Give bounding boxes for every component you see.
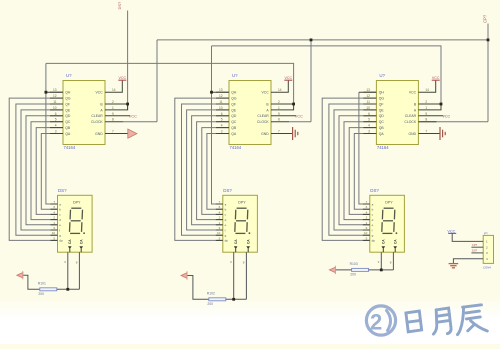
- svg-text:U?: U?: [232, 73, 238, 78]
- svg-text:QE: QE: [379, 108, 385, 112]
- svg-text:CA: CA: [234, 239, 238, 244]
- wire U3 pin14 to VCC: [418, 80, 435, 92]
- svg-text:DS?: DS?: [370, 188, 379, 193]
- svg-text:2: 2: [278, 100, 280, 104]
- wire U2 pin row 3 to DS2 display pin: [182, 104, 230, 235]
- U3 left pin numbers: [366, 88, 370, 133]
- svg-text:CA: CA: [246, 239, 250, 244]
- wire U2 CLOCK to riser: [289, 121, 311, 123]
- U1 left pin numbers: [53, 88, 57, 133]
- svg-text:10: 10: [364, 231, 368, 235]
- svg-text:200: 200: [207, 302, 213, 306]
- wire clock bus top horizontal: [157, 39, 488, 41]
- junction U1 QH / cascade vertical: [45, 91, 48, 94]
- logo character CHEN: [456, 305, 488, 335]
- ground power port arrow (section 1): [17, 271, 23, 279]
- svg-text:5: 5: [221, 118, 223, 122]
- svg-text:9: 9: [219, 226, 221, 230]
- svg-text:CLEAR: CLEAR: [405, 114, 417, 118]
- svg-text:200: 200: [350, 273, 356, 277]
- svg-text:QF: QF: [65, 102, 70, 106]
- svg-text:QD: QD: [231, 114, 237, 118]
- 7-segment display DS1: [51, 195, 93, 252]
- svg-text:8: 8: [425, 118, 427, 122]
- svg-text:200: 200: [38, 292, 44, 296]
- svg-text:13: 13: [366, 88, 370, 92]
- svg-text:CP?: CP?: [483, 14, 488, 23]
- U3 right pin numbers: [425, 88, 429, 133]
- ground power port arrow (section 3): [329, 266, 335, 274]
- svg-text:DS?: DS?: [58, 188, 67, 193]
- DS1 left pin numbers: [52, 200, 56, 240]
- svg-text:7: 7: [366, 200, 368, 204]
- svg-text:DPY: DPY: [238, 201, 246, 205]
- svg-text:8: 8: [76, 261, 78, 265]
- DS1 common pin 8: [78, 252, 80, 289]
- svg-text:P?: P?: [484, 231, 488, 235]
- svg-text:2: 2: [219, 216, 221, 220]
- wire U1 pin A tie-up: [105, 104, 128, 110]
- 7-segment display DS2: [216, 195, 258, 252]
- svg-text:GND: GND: [95, 132, 103, 136]
- wire P1 pin2 stub: [471, 246, 483, 248]
- U2 right pin numbers: [278, 88, 282, 133]
- U3 right pin labels: [404, 91, 416, 136]
- svg-text:QB: QB: [231, 126, 237, 130]
- wire U1 pin row 3 to DS1 display pin: [16, 104, 63, 235]
- svg-text:6: 6: [55, 112, 57, 116]
- svg-text:3: 3: [221, 130, 223, 134]
- DS1 common pin 3: [67, 252, 69, 289]
- wire U3 pin A tie-up: [418, 104, 441, 110]
- svg-text:5: 5: [366, 236, 368, 240]
- svg-text:QD: QD: [65, 114, 71, 118]
- wire R101 to DS1 commons: [57, 288, 80, 290]
- wire U2 pin row 7 to DS2 display pin: [202, 128, 229, 215]
- svg-text:9: 9: [425, 112, 427, 116]
- svg-text:4: 4: [53, 210, 55, 214]
- wire U1 pin row 2 to DS1 display pin: [9, 98, 63, 240]
- DS2 left pin numbers: [217, 200, 221, 240]
- svg-text:QF: QF: [379, 102, 384, 106]
- svg-text:QH: QH: [65, 91, 71, 95]
- svg-text:QC: QC: [65, 120, 71, 124]
- shift register U3 74164: [363, 81, 418, 145]
- svg-text:6: 6: [221, 112, 223, 116]
- DS3 segment input labels: [372, 202, 376, 242]
- junction DS1 pin3 / common wire: [66, 288, 69, 291]
- svg-text:4: 4: [368, 124, 370, 128]
- wire U1 pin row 7 to DS1 display pin: [36, 128, 63, 215]
- DS1 seven segment digit: [70, 208, 86, 234]
- svg-text:9: 9: [53, 226, 55, 230]
- wire VCC to P1 pin1: [452, 233, 483, 241]
- wire U2 pin row 8 to DS2 display pin: [207, 134, 229, 210]
- wire U1 pin row 8 to DS1 display pin: [41, 134, 63, 210]
- wire U3 QH stub: [359, 91, 377, 93]
- DS3 common anode marks: [382, 239, 398, 253]
- svg-text:QE: QE: [231, 108, 237, 112]
- svg-text:DPY: DPY: [73, 201, 81, 205]
- svg-text:VCC: VCC: [119, 76, 127, 80]
- svg-text:VCC: VCC: [442, 114, 450, 118]
- DS1 segment input labels: [59, 202, 63, 242]
- svg-text:5: 5: [368, 118, 370, 122]
- ground power port arrow (section 2): [181, 271, 187, 279]
- wire U3 pin B: [418, 103, 441, 105]
- svg-text:f: f: [59, 228, 60, 232]
- DS2 common anode marks: [234, 239, 251, 253]
- svg-text:R101: R101: [38, 281, 46, 285]
- svg-text:CLOCK: CLOCK: [404, 120, 416, 124]
- svg-text:QA: QA: [231, 132, 237, 136]
- svg-text:CA: CA: [79, 239, 83, 244]
- ground (connector, bar style): [449, 264, 459, 268]
- U1 output labels QH..QA: [65, 91, 71, 136]
- wire CP input vertical right side: [487, 24, 489, 122]
- ground U3 (bar style): [440, 127, 445, 140]
- svg-text:CON4: CON4: [483, 265, 491, 269]
- svg-text:9: 9: [366, 226, 368, 230]
- svg-text:6: 6: [53, 205, 55, 209]
- shift register U1 74164: [50, 81, 105, 145]
- svg-text:f: f: [225, 228, 226, 232]
- svg-text:1: 1: [425, 106, 427, 110]
- svg-text:12: 12: [366, 94, 370, 98]
- svg-text:3: 3: [368, 130, 370, 134]
- wire U1 GND: [105, 133, 128, 135]
- svg-text:10: 10: [366, 106, 370, 110]
- junction U2 QH / cascade vertical: [210, 91, 213, 94]
- wire U1 pin14 to VCC: [105, 80, 122, 92]
- wire U3 pin row 2 to DS3 display pin: [322, 98, 376, 240]
- wire U1 QH vertical to DS1 pin 1: [46, 63, 58, 204]
- svg-text:10: 10: [217, 231, 221, 235]
- U2 output labels QH..QA: [231, 91, 237, 136]
- svg-text:DS?: DS?: [117, 1, 122, 10]
- svg-text:8: 8: [278, 118, 280, 122]
- svg-text:CA: CA: [393, 239, 397, 244]
- svg-text:5: 5: [55, 118, 57, 122]
- svg-text:QG: QG: [65, 97, 71, 101]
- resistor R103: [352, 268, 369, 271]
- svg-text:6: 6: [219, 205, 221, 209]
- svg-text:QB: QB: [65, 126, 71, 130]
- resistor R102: [209, 298, 226, 301]
- svg-text:3: 3: [378, 260, 380, 264]
- svg-text:QG: QG: [231, 97, 237, 101]
- svg-text:U?: U?: [66, 73, 72, 78]
- svg-text:VCC: VCC: [295, 114, 303, 118]
- wire U3 GND: [418, 133, 440, 135]
- svg-text:CLEAR: CLEAR: [257, 114, 269, 118]
- wire U1 pin row 4 to DS1 display pin: [21, 110, 63, 230]
- svg-text:11: 11: [219, 100, 223, 104]
- wire U1 QH stub: [46, 91, 63, 93]
- svg-text:14: 14: [112, 88, 116, 92]
- svg-text:QC: QC: [379, 120, 385, 124]
- power VCC symbol above U3: [432, 79, 440, 81]
- svg-text:10: 10: [52, 231, 56, 235]
- svg-text:CA: CA: [382, 239, 386, 244]
- logo watermark circle: [366, 306, 395, 335]
- svg-text:GND: GND: [409, 132, 417, 136]
- svg-text:CA: CA: [68, 239, 72, 244]
- svg-text:7: 7: [219, 200, 221, 204]
- svg-text:QD: QD: [379, 114, 385, 118]
- 7-segment display DS3: [363, 195, 405, 252]
- svg-text:10: 10: [219, 106, 223, 110]
- svg-text:14: 14: [425, 88, 429, 92]
- wire U3 pin row 6 to DS3 display pin: [344, 122, 376, 220]
- wire ground arrow to R103: [335, 269, 351, 271]
- svg-text:QH: QH: [379, 91, 385, 95]
- svg-text:VCC: VCC: [262, 91, 270, 95]
- svg-text:1: 1: [53, 221, 55, 225]
- svg-text:9: 9: [112, 112, 114, 116]
- wire U3 QH vertical to DS3 pin 1: [359, 92, 370, 204]
- svg-text:GND: GND: [261, 132, 269, 136]
- svg-text:8: 8: [243, 261, 245, 265]
- wire cascade U2.QH to U3 A/B: [212, 46, 442, 104]
- DS3 common pin 3: [380, 252, 382, 270]
- wire ground arrow to R102: [187, 276, 209, 300]
- DS2 seven segment digit: [235, 208, 251, 234]
- svg-text:4: 4: [55, 124, 57, 128]
- DS3 common pin 8: [392, 252, 394, 270]
- svg-text:QE: QE: [65, 108, 71, 112]
- wire P1 pin4 to ground: [453, 259, 483, 264]
- svg-text:VCC: VCC: [129, 114, 137, 118]
- svg-text:QC: QC: [231, 120, 237, 124]
- wire U1 CLOCK to riser: [123, 121, 157, 123]
- svg-text:7: 7: [53, 200, 55, 204]
- svg-text:11: 11: [53, 100, 57, 104]
- svg-text:DS?: DS?: [223, 188, 232, 193]
- shift register U2 74164: [216, 81, 271, 145]
- wire U1 CLEAR: [105, 115, 130, 117]
- svg-text:1: 1: [219, 221, 221, 225]
- wire U2 pin14 to VCC: [271, 80, 288, 92]
- U2 right pin labels: [257, 91, 269, 136]
- U1 right pin labels: [91, 91, 103, 136]
- svg-text:5: 5: [53, 236, 55, 240]
- connector P1 (4-pin header): [483, 235, 493, 263]
- svg-text:R103: R103: [350, 262, 358, 266]
- wire U2 QH vertical to DS2 pin 1: [212, 46, 223, 204]
- wire U3 pin row 5 to DS3 display pin: [339, 116, 376, 225]
- junction DS3 pin3 / common wire: [380, 269, 383, 272]
- logo character RI (sun): [406, 311, 422, 332]
- junction DS2 pin3 / common wire: [232, 298, 235, 301]
- svg-text:2: 2: [53, 216, 55, 220]
- wire U2 pin A tie-up: [271, 104, 294, 110]
- svg-text:74164: 74164: [230, 145, 242, 150]
- wire U2 pin row 6 to DS2 display pin: [197, 122, 229, 220]
- svg-text:dp: dp: [225, 239, 229, 243]
- svg-text:R102: R102: [207, 291, 215, 295]
- svg-text:13: 13: [219, 88, 223, 92]
- svg-text:4: 4: [219, 210, 221, 214]
- svg-text:2: 2: [370, 310, 382, 335]
- wire U2 QH stub: [212, 91, 230, 93]
- svg-text:74164: 74164: [377, 145, 389, 150]
- svg-text:8: 8: [112, 118, 114, 122]
- junction U2 A/B data node: [292, 103, 295, 106]
- DS3 left pin numbers: [364, 200, 368, 240]
- svg-text:7: 7: [425, 130, 427, 134]
- wire U3 pin row 4 to DS3 display pin: [334, 110, 376, 230]
- svg-text:DS?: DS?: [472, 249, 478, 253]
- wire R102 to DS2 commons: [226, 298, 247, 300]
- svg-text:2: 2: [425, 100, 427, 104]
- svg-text:CLOCK: CLOCK: [91, 120, 103, 124]
- wire U2 pin row 4 to DS2 display pin: [187, 110, 229, 230]
- svg-text:CP?: CP?: [472, 243, 478, 247]
- svg-text:QH: QH: [231, 91, 237, 95]
- svg-text:QG: QG: [379, 97, 385, 101]
- wire U2 pin row 2 to DS2 display pin: [175, 98, 229, 240]
- svg-text:6: 6: [368, 112, 370, 116]
- svg-text:VCC: VCC: [96, 91, 104, 95]
- wire cascade U1.QH to U2 A/B: [46, 63, 294, 104]
- svg-text:7: 7: [112, 130, 114, 134]
- svg-text:4: 4: [366, 210, 368, 214]
- DS3 seven segment digit: [382, 208, 398, 234]
- wire R103 to DS3 commons: [369, 269, 394, 271]
- svg-text:QA: QA: [65, 132, 71, 136]
- svg-text:VCC: VCC: [447, 229, 455, 233]
- svg-text:74164: 74164: [64, 145, 76, 150]
- svg-text:3: 3: [230, 260, 232, 264]
- svg-text:dp: dp: [59, 239, 63, 243]
- svg-text:12: 12: [219, 94, 223, 98]
- svg-text:QA: QA: [379, 132, 385, 136]
- wire U3 CLEAR: [418, 115, 443, 117]
- svg-text:14: 14: [278, 88, 282, 92]
- wire U2 CLEAR: [271, 115, 296, 117]
- svg-text:10: 10: [53, 106, 57, 110]
- wire U1 pin row 6 to DS1 display pin: [31, 122, 63, 220]
- svg-text:11: 11: [367, 100, 371, 104]
- wire U3 pin row 8 to DS3 display pin: [354, 134, 376, 210]
- DS2 segment input labels: [225, 202, 229, 242]
- wire U1 pin row 5 to DS1 display pin: [26, 116, 63, 225]
- wire U3 pin row 3 to DS3 display pin: [329, 104, 377, 235]
- logo character YUE (moon): [432, 308, 452, 335]
- DS1 common anode marks: [68, 239, 83, 253]
- svg-text:1: 1: [366, 221, 368, 225]
- svg-text:VCC: VCC: [432, 76, 440, 80]
- svg-text:3: 3: [64, 260, 66, 264]
- svg-text:7: 7: [278, 130, 280, 134]
- wire U2 pin row 5 to DS2 display pin: [192, 116, 229, 225]
- wire U2 CLOCK riser: [310, 40, 312, 122]
- junction U1 A/B data node: [126, 103, 129, 106]
- wire U3 CLOCK to CP riser: [418, 121, 488, 123]
- DS2 common pin 8: [245, 252, 247, 299]
- svg-text:QB: QB: [379, 126, 385, 130]
- svg-text:12: 12: [53, 94, 57, 98]
- DS2 common pin 3: [233, 252, 235, 299]
- wire DS input drop to U1 pins A/B: [127, 11, 129, 110]
- wire ground arrow to R101: [23, 275, 40, 289]
- ground U2 (bar style): [293, 127, 298, 140]
- svg-text:U?: U?: [379, 73, 385, 78]
- wire U2 GND: [271, 133, 293, 135]
- wire U3 CLOCK stub: [418, 121, 436, 123]
- junction U3 A/B data node: [440, 103, 443, 106]
- wire U2 pin B: [271, 103, 294, 105]
- svg-text:2: 2: [366, 216, 368, 220]
- svg-text:3: 3: [55, 130, 57, 134]
- resistor R101: [40, 288, 57, 291]
- wire U1 CLOCK stub: [105, 121, 123, 123]
- junction clock bus / CP vertical: [487, 39, 490, 42]
- svg-text:CLEAR: CLEAR: [91, 114, 103, 118]
- svg-text:2: 2: [112, 100, 114, 104]
- svg-text:9: 9: [278, 112, 280, 116]
- P1 pin numbers: [486, 240, 488, 261]
- wire U3 pin row 7 to DS3 display pin: [349, 128, 376, 215]
- wire P1 pin3 stub: [471, 252, 483, 254]
- wire U2 CLOCK stub: [271, 121, 289, 123]
- svg-text:6: 6: [366, 205, 368, 209]
- svg-text:5: 5: [219, 236, 221, 240]
- U2 left pin numbers: [219, 88, 223, 133]
- svg-text:13: 13: [53, 88, 57, 92]
- svg-text:VCC: VCC: [285, 76, 293, 80]
- svg-text:dp: dp: [372, 239, 376, 243]
- ground U1 (arrow style power port): [128, 129, 137, 138]
- svg-text:8: 8: [390, 261, 392, 265]
- svg-text:QF: QF: [231, 102, 236, 106]
- wire U1 pin B: [105, 103, 128, 105]
- power VCC symbol above U2: [284, 79, 292, 81]
- svg-text:f: f: [372, 228, 373, 232]
- svg-text:CLOCK: CLOCK: [257, 120, 269, 124]
- logo arc glyph: [387, 311, 391, 331]
- U1 right pin numbers: [112, 88, 116, 133]
- svg-text:4: 4: [221, 124, 223, 128]
- svg-text:1: 1: [112, 106, 114, 110]
- svg-text:DPY: DPY: [385, 201, 393, 205]
- power VCC symbol above U1: [118, 79, 126, 81]
- svg-text:1: 1: [278, 106, 280, 110]
- junction clock bus / U2 riser: [310, 39, 313, 42]
- wire U1 CLOCK riser: [156, 40, 158, 122]
- U3 output labels QH..QA: [379, 91, 385, 136]
- svg-text:VCC: VCC: [409, 91, 417, 95]
